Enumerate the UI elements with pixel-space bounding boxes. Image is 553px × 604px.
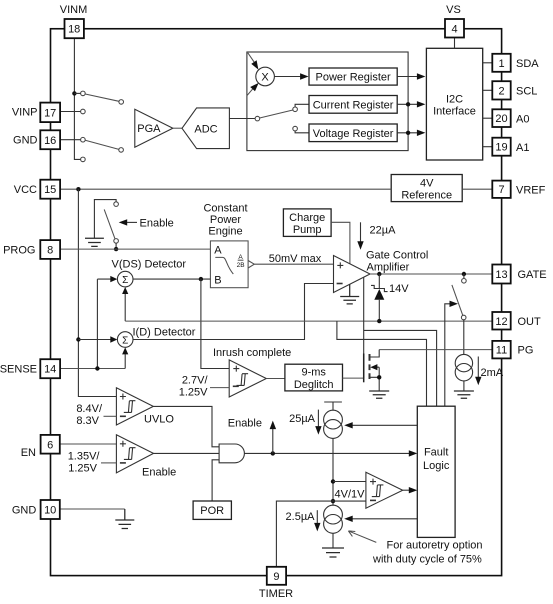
svg-text:Charge: Charge bbox=[289, 212, 325, 224]
switch arm D-E bbox=[85, 140, 119, 149]
ground mosfet bbox=[369, 391, 389, 398]
9-ms Deglitch box bbox=[285, 364, 343, 391]
svg-text:I2C: I2C bbox=[446, 94, 463, 106]
wire V(DS) output to B bbox=[133, 278, 210, 280]
svg-text:25µA: 25µA bbox=[289, 413, 316, 425]
wire I2C to SCL bbox=[483, 89, 493, 91]
wire comparator plus input bbox=[333, 481, 366, 483]
label Enable with arrow bbox=[119, 217, 174, 229]
pin 20 bbox=[492, 109, 510, 127]
wire enable comparator minus stub bbox=[101, 462, 116, 464]
switch contact current register bbox=[293, 107, 298, 112]
svg-text:9-ms: 9-ms bbox=[301, 367, 326, 379]
svg-text:UVLO: UVLO bbox=[144, 414, 174, 426]
wire V(DS) bottom input from OUT line bbox=[124, 294, 126, 321]
svg-text:2.5µA: 2.5µA bbox=[286, 511, 316, 523]
arrow fault logic to 2.5uA bbox=[353, 518, 418, 520]
wire power register to I2C bbox=[397, 76, 417, 78]
wire voltage register input hook bbox=[295, 131, 309, 133]
chip outer border bbox=[51, 29, 502, 576]
wire 4V reference to VREF pin bbox=[462, 188, 492, 190]
pin 13 bbox=[492, 265, 510, 284]
svg-text:A1: A1 bbox=[516, 142, 529, 154]
svg-text:B: B bbox=[214, 274, 221, 286]
wire OUT branch to fault logic bbox=[337, 321, 427, 406]
svg-text:4: 4 bbox=[451, 23, 457, 35]
svg-text:2.7V/: 2.7V/ bbox=[182, 374, 209, 386]
svg-text:Deglitch: Deglitch bbox=[294, 379, 334, 391]
svg-text:Gate Control: Gate Control bbox=[366, 250, 428, 262]
switch arm enable bbox=[104, 209, 115, 238]
svg-text:Interface: Interface bbox=[433, 106, 476, 118]
wire AND output to fault logic bbox=[244, 452, 409, 454]
wire inrush minus input bbox=[210, 387, 229, 389]
wire VINM bus bbox=[74, 38, 80, 159]
wire gate switch stub bbox=[463, 274, 465, 279]
svg-text:ADC: ADC bbox=[194, 124, 217, 136]
svg-text:Σ: Σ bbox=[122, 335, 128, 346]
wire I(D) output to op-amp minus bbox=[133, 284, 334, 340]
svg-text:VINP: VINP bbox=[12, 106, 38, 118]
svg-text:Enable: Enable bbox=[142, 467, 176, 479]
multiplier X bbox=[256, 67, 275, 86]
svg-text:8.3V: 8.3V bbox=[76, 415, 99, 427]
svg-text:For autoretry option: For autoretry option bbox=[387, 540, 483, 552]
svg-text:9: 9 bbox=[273, 571, 279, 583]
arrow fault logic to 25uA bbox=[353, 424, 418, 426]
wire 2.5uA to ground bbox=[332, 533, 334, 548]
Voltage Register bbox=[309, 124, 397, 142]
wire multiplier to power register bbox=[274, 76, 300, 78]
svg-text:Inrush complete: Inrush complete bbox=[213, 347, 291, 359]
wire I2C to A0 bbox=[483, 117, 493, 119]
pin 6 bbox=[41, 435, 60, 454]
current source 25uA bbox=[289, 410, 342, 439]
summer V(DS) detector bbox=[117, 271, 133, 287]
svg-text:SCL: SCL bbox=[516, 85, 537, 97]
switch contact E bbox=[119, 148, 124, 153]
wire OUT line bbox=[125, 320, 492, 322]
autoretry note pointer bbox=[348, 531, 376, 543]
wire VCC bus vertical bbox=[78, 189, 116, 396]
svg-text:8.4V/: 8.4V/ bbox=[76, 403, 103, 415]
svg-text:OUT: OUT bbox=[518, 316, 542, 328]
comparator Enable bbox=[116, 435, 176, 479]
svg-text:Enable: Enable bbox=[140, 217, 174, 229]
svg-text:17: 17 bbox=[44, 107, 56, 119]
wire EN line bbox=[60, 443, 117, 445]
summer I(D) detector bbox=[117, 332, 133, 348]
svg-text:6: 6 bbox=[47, 439, 53, 451]
pin 1 bbox=[492, 54, 510, 72]
wire current register to I2C bbox=[397, 103, 417, 105]
switch contact gate bottom bbox=[461, 315, 466, 320]
ADC block bbox=[182, 108, 229, 149]
node SENSE branch bbox=[95, 366, 99, 370]
pin 4 bbox=[445, 19, 464, 38]
wire diagonal into multiplier top bbox=[248, 53, 255, 63]
node VINM-switch junction bbox=[72, 91, 76, 95]
wire GND pin line bbox=[60, 508, 125, 510]
svg-text:Current Register: Current Register bbox=[313, 99, 394, 111]
wire inrush output to deglitch bbox=[266, 378, 285, 380]
enable switch to ground bbox=[94, 200, 116, 239]
comparator timer 4V/1V bbox=[366, 472, 403, 508]
node zener bottom on OUT line bbox=[377, 319, 381, 323]
svg-text:TIMER: TIMER bbox=[259, 588, 293, 600]
svg-text:2mA: 2mA bbox=[481, 367, 504, 379]
node VCC bus junction bbox=[76, 187, 80, 191]
AND gate enable bbox=[219, 444, 244, 463]
svg-text:7: 7 bbox=[498, 184, 504, 196]
wire UVLO minus stub bbox=[104, 415, 117, 417]
switch arm A-B bbox=[85, 94, 119, 101]
switch contact B bbox=[119, 100, 124, 105]
switch contact gate top bbox=[462, 279, 467, 284]
svg-text:A0: A0 bbox=[516, 113, 529, 125]
svg-text:Σ: Σ bbox=[122, 275, 128, 286]
svg-text:12: 12 bbox=[495, 316, 507, 328]
switch contact enable bottom bbox=[114, 239, 119, 244]
svg-text:2: 2 bbox=[498, 85, 504, 97]
wire CPE output 50mV bbox=[254, 263, 333, 265]
switch contact enable top bbox=[114, 202, 119, 207]
pin 17 bbox=[40, 103, 60, 123]
zener diode 14V bbox=[371, 274, 409, 321]
pin 10 bbox=[41, 500, 60, 519]
pin 2 bbox=[492, 81, 510, 99]
wire PROG line bbox=[60, 248, 210, 250]
switch arm to current register bbox=[260, 110, 293, 118]
pin 18 bbox=[65, 19, 84, 38]
Power Register bbox=[309, 68, 397, 85]
svg-text:Constant: Constant bbox=[203, 202, 247, 214]
pin 8 bbox=[40, 240, 60, 259]
wire UVLO output to AND gate bbox=[153, 406, 219, 446]
svg-text:Pump: Pump bbox=[293, 224, 322, 236]
pin 19 bbox=[492, 138, 510, 156]
svg-text:11: 11 bbox=[496, 345, 507, 357]
svg-text:PGA: PGA bbox=[137, 123, 161, 135]
arrow 22uA bbox=[357, 222, 396, 249]
wire comparator minus input bbox=[333, 500, 366, 502]
svg-text:Power Register: Power Register bbox=[315, 72, 391, 84]
wire I2C to SDA bbox=[483, 62, 493, 64]
switch contact D bbox=[81, 137, 86, 142]
node enable net bbox=[271, 451, 275, 455]
switch contact voltage register bbox=[293, 126, 298, 131]
svg-text:Engine: Engine bbox=[208, 225, 242, 237]
svg-text:18: 18 bbox=[68, 24, 80, 36]
svg-text:VINM: VINM bbox=[60, 4, 88, 16]
svg-text:22µA: 22µA bbox=[370, 225, 397, 237]
svg-text:8: 8 bbox=[47, 245, 53, 257]
node PROG switch junction bbox=[114, 247, 118, 251]
arrow enable up bbox=[228, 417, 276, 453]
node zener top bbox=[377, 272, 381, 276]
wire enable comparator output bbox=[154, 452, 220, 454]
wire gate drive line bbox=[370, 273, 492, 275]
wire switch control from fault logic bbox=[445, 304, 450, 406]
pin 7 bbox=[492, 181, 510, 198]
node comparator plus junction bbox=[331, 479, 335, 483]
wire comparator output to fault logic bbox=[403, 489, 409, 491]
svg-text:VS: VS bbox=[446, 4, 461, 16]
svg-text:GND: GND bbox=[13, 134, 38, 146]
svg-text:Fault: Fault bbox=[424, 447, 448, 459]
svg-text:I(D) Detector: I(D) Detector bbox=[133, 327, 196, 339]
ground enable switch bbox=[85, 238, 104, 246]
wire TIMER to pin 9 bbox=[276, 501, 333, 567]
current source 2mA bbox=[455, 354, 504, 390]
svg-text:19: 19 bbox=[495, 142, 507, 154]
ground GND pin bbox=[115, 509, 134, 529]
svg-text:V(DS) Detector: V(DS) Detector bbox=[112, 259, 187, 271]
ground timer bbox=[322, 548, 344, 557]
svg-text:Reference: Reference bbox=[401, 190, 452, 202]
node voltage register bus bbox=[406, 131, 410, 135]
ground 2mA source bbox=[454, 391, 474, 398]
switch contact ADC out bbox=[255, 116, 260, 121]
wire VS stub bbox=[454, 38, 456, 49]
pin 16 bbox=[40, 130, 60, 149]
svg-text:50mV max: 50mV max bbox=[269, 253, 322, 265]
svg-text:with duty cycle of 75%: with duty cycle of 75% bbox=[372, 554, 482, 566]
svg-text:2B: 2B bbox=[237, 262, 245, 269]
Constant Power Engine bbox=[203, 202, 254, 287]
svg-text:X: X bbox=[261, 72, 269, 84]
wire stub to switch contact A bbox=[74, 92, 80, 94]
svg-text:A: A bbox=[214, 244, 222, 256]
I2C Interface box bbox=[426, 48, 482, 160]
switch contact F bbox=[81, 157, 86, 162]
pin 12 bbox=[492, 312, 510, 330]
switch contact C bbox=[81, 109, 86, 114]
svg-text:1.25V: 1.25V bbox=[179, 386, 208, 398]
wire VCC line bbox=[60, 188, 391, 190]
wire switch to PROG line bbox=[115, 243, 117, 249]
svg-text:SENSE: SENSE bbox=[0, 363, 37, 375]
Current Register bbox=[309, 96, 397, 114]
node gate switch junction bbox=[462, 272, 466, 276]
svg-text:1.25V: 1.25V bbox=[68, 463, 97, 475]
svg-text:13: 13 bbox=[495, 269, 507, 281]
svg-text:GND: GND bbox=[12, 504, 37, 516]
power calculation bus box bbox=[247, 52, 408, 151]
wire diagonal into multiplier bottom bbox=[247, 89, 253, 96]
wire PG line bbox=[379, 349, 492, 351]
node current register bus bbox=[406, 102, 410, 106]
wire I(D) bottom input bbox=[124, 354, 126, 368]
svg-text:16: 16 bbox=[44, 135, 56, 147]
ground op-amp bbox=[340, 284, 359, 304]
svg-text:1: 1 bbox=[498, 58, 504, 70]
pin 11 bbox=[492, 341, 510, 359]
switch arm gate-out bbox=[452, 285, 463, 316]
wire I2C to A1 bbox=[483, 146, 493, 148]
svg-text:VREF: VREF bbox=[516, 184, 546, 196]
node V(DS) output branch bbox=[199, 277, 203, 281]
comparator inrush bbox=[229, 360, 266, 397]
transistor internal NMOS bbox=[364, 350, 382, 391]
amplifier PGA bbox=[135, 109, 173, 147]
wire voltage register to I2C bbox=[397, 132, 417, 134]
current source 25uA rail bbox=[324, 402, 342, 410]
wire timer capacitor node bbox=[332, 438, 334, 505]
wire V(DS) left input bbox=[97, 279, 110, 368]
svg-text:Logic: Logic bbox=[423, 460, 450, 472]
wire I(D) left input bbox=[78, 339, 110, 341]
pin 9 bbox=[267, 567, 286, 585]
svg-text:Power: Power bbox=[210, 214, 242, 226]
svg-text:1.35V/: 1.35V/ bbox=[68, 451, 101, 463]
op-amp U1 gate control amplifier bbox=[334, 256, 371, 293]
svg-text:GATE: GATE bbox=[518, 269, 547, 281]
current source 2.5uA bbox=[286, 505, 343, 533]
switch contact A bbox=[81, 91, 86, 96]
svg-text:4V/1V: 4V/1V bbox=[335, 489, 366, 501]
node I(D) left input on VCC bus bbox=[76, 337, 80, 341]
pin 14 bbox=[40, 359, 60, 378]
pin 15 bbox=[40, 180, 60, 199]
svg-text:14: 14 bbox=[44, 364, 56, 376]
wire charge pump to amplifier bbox=[331, 222, 350, 264]
svg-text:VCC: VCC bbox=[14, 184, 37, 196]
svg-text:POR: POR bbox=[200, 505, 224, 517]
wire PGA to ADC bbox=[173, 127, 182, 129]
svg-text:EN: EN bbox=[21, 447, 36, 459]
4V Reference box bbox=[391, 175, 462, 202]
svg-text:15: 15 bbox=[44, 184, 56, 196]
Charge Pump box bbox=[283, 209, 331, 237]
svg-text:Amplifier: Amplifier bbox=[367, 262, 410, 274]
svg-text:20: 20 bbox=[495, 113, 507, 125]
wire V(DS) branch to inrush comparator bbox=[201, 279, 229, 368]
wire pin16 stub bbox=[60, 139, 81, 141]
wire SENSE line bbox=[60, 368, 125, 370]
svg-text:Voltage Register: Voltage Register bbox=[313, 128, 394, 140]
wire ADC output bbox=[229, 118, 255, 120]
svg-text:SDA: SDA bbox=[516, 58, 539, 70]
svg-text:10: 10 bbox=[44, 505, 56, 517]
svg-text:4V: 4V bbox=[420, 178, 434, 190]
wire deglitch to mosfet gate bbox=[343, 377, 364, 379]
node timer line junction bbox=[331, 499, 335, 503]
svg-text:PROG: PROG bbox=[3, 244, 35, 256]
svg-text:Enable: Enable bbox=[228, 417, 262, 429]
wire switch to 2mA source bbox=[463, 320, 465, 355]
comparator UVLO bbox=[116, 388, 174, 426]
wire pin17 stub bbox=[60, 111, 81, 113]
svg-text:14V: 14V bbox=[389, 283, 409, 295]
svg-text:PG: PG bbox=[518, 345, 534, 357]
wire current register input hook bbox=[295, 104, 309, 107]
wire gate monitor net bbox=[364, 277, 437, 406]
Fault Logic box bbox=[417, 406, 455, 537]
POR box bbox=[193, 501, 231, 519]
wire POR to AND gate bbox=[212, 460, 219, 501]
